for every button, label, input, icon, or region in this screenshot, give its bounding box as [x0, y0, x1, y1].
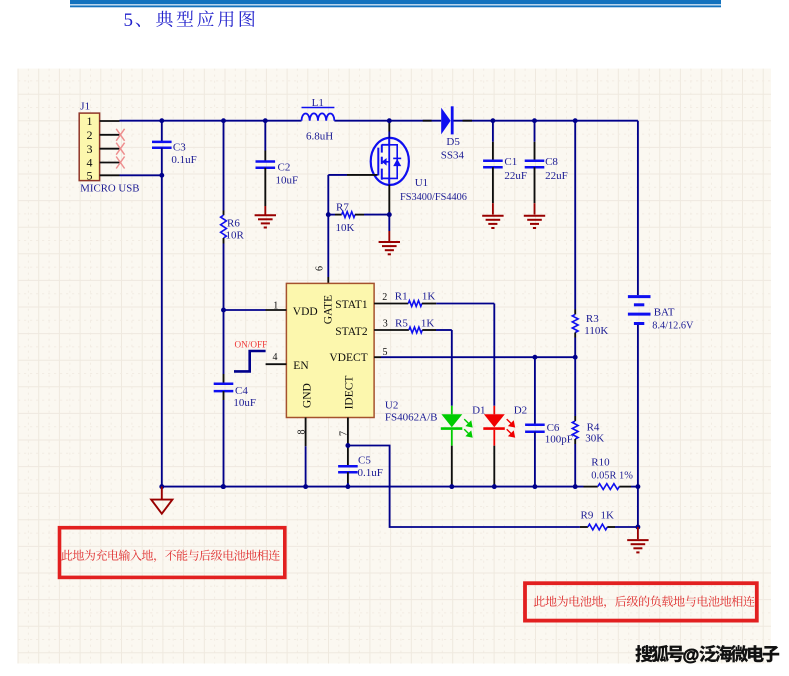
junction dot bottom rail x223.1	[221, 484, 226, 489]
junction dot gate R7	[326, 212, 331, 217]
svg-text:FS4062A/B: FS4062A/B	[385, 412, 438, 424]
wire C1 ground stub red	[492, 203, 494, 214]
LED D2 arrows	[507, 419, 515, 437]
capacitor C3	[152, 141, 172, 144]
transistor U1 body link	[382, 161, 389, 163]
transistor U1 source link	[382, 178, 389, 183]
junction dot C3 top	[159, 118, 164, 123]
transistor U1 source pin	[388, 185, 390, 215]
pin GND stub	[305, 418, 307, 447]
transistor U1 drain link	[382, 139, 389, 145]
wire battery ground stub	[637, 527, 639, 539]
ground under C2	[255, 214, 276, 216]
resistor R7	[342, 212, 355, 218]
header bar thin	[70, 5, 721, 7]
junction dot U1 drain	[387, 118, 392, 123]
svg-text:FS3400/FS4406: FS3400/FS4406	[400, 192, 467, 203]
pin C8 top stub	[534, 142, 536, 161]
junction dot source R7	[387, 212, 392, 217]
resistor R9	[588, 524, 607, 530]
ON/OFF step waveform	[234, 351, 266, 371]
svg-text:1K: 1K	[422, 291, 436, 303]
svg-text:10R: 10R	[226, 229, 245, 241]
wire IDECT sense	[348, 446, 580, 528]
LED D2 lead bottom	[493, 430, 495, 446]
capacitor C5	[338, 465, 358, 468]
svg-text:SS34: SS34	[441, 149, 465, 161]
transistor U1 gate bar	[377, 148, 379, 176]
wire top rail J1 to L1	[120, 120, 302, 122]
pin C1 top stub	[492, 142, 494, 161]
wire black seg before D5	[423, 120, 432, 122]
junction dot R4 bottom	[573, 484, 578, 489]
wire C4 to bottom rail	[223, 400, 225, 487]
wire VDD	[224, 309, 266, 311]
transistor U1 substrate arrow	[382, 158, 387, 166]
junction dot C1 top	[490, 118, 495, 123]
junction dot bottom rail x347.9	[345, 484, 350, 489]
pin 6 stub	[327, 277, 329, 283]
capacitor C1	[483, 160, 503, 163]
capacitor C2	[256, 160, 276, 163]
junction dot power ground	[159, 484, 164, 489]
wire C6 bottom	[534, 432, 536, 487]
svg-text:R1: R1	[395, 291, 408, 303]
svg-text:U2: U2	[385, 400, 398, 412]
no-connect X pin 2	[116, 129, 124, 141]
transistor U1 drain pin blue	[388, 132, 390, 139]
pin 5 stub	[100, 174, 120, 176]
junction dot C8 top	[532, 118, 537, 123]
svg-text:5: 5	[87, 169, 93, 183]
svg-text:D2: D2	[514, 405, 527, 417]
wire R9 to BAT column	[615, 526, 638, 528]
pin 1 stub	[100, 120, 120, 122]
connector J1 box	[79, 113, 99, 181]
red note box right	[525, 583, 757, 620]
svg-text:2: 2	[87, 128, 93, 142]
inductor L1	[302, 113, 335, 120]
svg-text:C6: C6	[547, 422, 560, 434]
ground battery	[627, 539, 648, 541]
pin R7 right stub	[355, 214, 364, 216]
watermark text	[635, 645, 683, 662]
pin C4 top stub	[223, 374, 225, 384]
LED D1 lead top	[451, 406, 453, 415]
wire bottom rail right	[631, 486, 638, 488]
wire VDECT	[381, 356, 575, 358]
wire C2 column top	[264, 121, 266, 151]
junction dot IDECT branch	[345, 443, 350, 448]
no-connect X pin 3	[116, 143, 124, 155]
junction dot pin5	[159, 173, 164, 178]
svg-text:R10: R10	[591, 457, 610, 469]
junction dot C2 top	[263, 118, 268, 123]
svg-text:1: 1	[87, 114, 93, 128]
LED D1 lead bottom	[451, 430, 453, 446]
no-connect X pin 4	[116, 157, 124, 169]
capacitor C6	[525, 424, 545, 427]
power ground triangle	[151, 500, 172, 514]
wire BAT bottom	[637, 325, 639, 527]
wire left rail lower	[161, 148, 163, 487]
junction dot C4 bottom	[221, 484, 226, 489]
wire black seg after D5	[463, 120, 473, 122]
capacitor C8	[525, 160, 545, 163]
svg-text:5: 5	[124, 10, 134, 31]
pin C4 bottom stub	[223, 391, 225, 400]
pin STAT2 stub	[374, 329, 409, 331]
svg-text:GND: GND	[302, 383, 314, 408]
svg-text:IDECT: IDECT	[344, 376, 356, 410]
pin R3 top stub	[574, 310, 576, 315]
svg-text:10uF: 10uF	[276, 175, 299, 187]
svg-text:J1: J1	[80, 100, 90, 112]
LED D2 lead top	[493, 406, 495, 415]
wire pin5 to left rail	[120, 174, 162, 176]
svg-text:BAT: BAT	[654, 307, 675, 319]
wire power ground stub	[161, 487, 163, 500]
pin 3 stub	[100, 148, 120, 150]
svg-text:C4: C4	[235, 385, 248, 397]
svg-text:L1: L1	[312, 97, 324, 109]
svg-text:C8: C8	[545, 156, 558, 168]
wire C2 to ground	[264, 168, 266, 206]
svg-text:EN: EN	[293, 360, 309, 372]
junction dot VDD node	[221, 308, 226, 313]
svg-text:R3: R3	[586, 313, 599, 325]
svg-text:VDD: VDD	[293, 306, 318, 318]
svg-text:R6: R6	[227, 218, 240, 230]
wire left rail upper	[161, 121, 163, 142]
wire R6 column top	[223, 121, 225, 211]
svg-text:C3: C3	[173, 142, 186, 154]
svg-text:D5: D5	[446, 136, 460, 148]
svg-text:6: 6	[315, 266, 326, 271]
LED D2 lower pin	[493, 446, 495, 487]
resistor R1	[408, 301, 422, 307]
LED D1 cathode bar	[441, 427, 463, 430]
pin VDECT stub	[374, 356, 381, 358]
svg-text:0.1uF: 0.1uF	[358, 467, 383, 479]
LED D2 cathode bar	[483, 427, 505, 430]
junction dot bottom rail x305.6	[303, 484, 308, 489]
LED D1 triangle	[441, 414, 462, 427]
wire GND column	[305, 446, 307, 486]
wire BAT top	[637, 121, 639, 296]
wire R7 right	[364, 214, 389, 216]
svg-text:1K: 1K	[601, 510, 615, 522]
svg-text:8.4/12.6V: 8.4/12.6V	[652, 321, 694, 332]
pin 4 stub	[100, 162, 120, 164]
svg-text:GATE: GATE	[323, 295, 335, 324]
wire D2 column	[493, 304, 495, 406]
svg-text:22uF: 22uF	[504, 170, 527, 182]
header bar thick	[70, 0, 721, 4]
LED D1 arrows	[464, 419, 472, 437]
resistor R10	[598, 484, 620, 490]
ground under U1 source	[379, 241, 400, 243]
ground under C8	[524, 215, 545, 217]
svg-text:STAT1: STAT1	[335, 299, 368, 311]
svg-text:0.05R 1%: 0.05R 1%	[591, 470, 633, 481]
transistor U1 body diode branch	[389, 145, 397, 179]
LED D2 triangle	[484, 414, 505, 427]
pin R3 bottom stub	[574, 333, 576, 338]
pin C1 bottom stub	[492, 167, 494, 203]
svg-text:R7: R7	[336, 202, 349, 214]
wire gate vertical	[327, 175, 329, 277]
resistor R5	[409, 327, 422, 333]
battery BAT	[628, 295, 651, 298]
pin C2 top stub	[264, 151, 266, 162]
svg-text:VDECT: VDECT	[329, 352, 367, 364]
wire top rail L1 to D5	[334, 120, 441, 122]
wire C2 ground stub red	[264, 206, 266, 215]
wire gate horizontal	[328, 174, 347, 176]
pin C8 bottom stub	[534, 167, 536, 203]
junction dot VDECT C6	[532, 355, 537, 360]
pin 2 stub	[100, 134, 120, 136]
junction dot D2 bottom	[492, 484, 497, 489]
wire R6 to VDD junction	[223, 244, 225, 375]
svg-text:10K: 10K	[336, 222, 355, 234]
junction dot R3 col top	[573, 118, 578, 123]
wire C5 bottom	[347, 472, 349, 484]
svg-text:STAT2: STAT2	[335, 326, 368, 338]
transistor U1 center axis	[388, 139, 390, 185]
svg-text:1K: 1K	[421, 318, 435, 330]
svg-text:ON/OFF: ON/OFF	[235, 339, 268, 349]
wire R7 left	[328, 214, 335, 216]
wire IDECT column	[347, 444, 349, 446]
transistor U1 drain pin	[388, 121, 390, 132]
svg-text:0.1uF: 0.1uF	[171, 154, 196, 166]
pin R5 right stub	[422, 329, 436, 331]
pin R4 bottom stub	[574, 439, 576, 444]
svg-text:22uF: 22uF	[545, 170, 568, 182]
svg-text:6.8uH: 6.8uH	[306, 131, 333, 143]
svg-text:R9: R9	[581, 510, 594, 522]
svg-text:100pF: 100pF	[545, 433, 573, 445]
wire R5 to D1 column	[436, 329, 452, 331]
pin gate stub black	[347, 174, 378, 176]
svg-text:C1: C1	[504, 156, 517, 168]
resistor R6	[221, 215, 227, 238]
svg-text:3: 3	[87, 142, 93, 156]
svg-text:@: @	[683, 645, 700, 664]
wire D1 column	[451, 330, 453, 406]
svg-text:3: 3	[383, 319, 388, 330]
svg-text:10uF: 10uF	[233, 397, 256, 409]
svg-text:2: 2	[382, 292, 387, 303]
pin R10 right stub	[619, 486, 631, 488]
resistor R4	[572, 421, 578, 439]
junction dot R6 top	[221, 118, 226, 123]
ground under C1	[482, 215, 503, 217]
wire C5 bottom2	[347, 483, 349, 487]
wire top rail D5 to corner	[454, 120, 638, 122]
wire C1 top blue	[492, 121, 494, 142]
junction dot C6 bottom	[532, 484, 537, 489]
pin STAT1 stub	[374, 303, 408, 305]
svg-text:C2: C2	[278, 162, 291, 174]
junction dot BAT rail	[635, 484, 640, 489]
svg-text:U1: U1	[415, 177, 428, 189]
transistor U1 ellipse	[371, 138, 409, 185]
transistor U1 channel segments	[381, 144, 383, 152]
junction dot R9 BAT	[635, 525, 640, 530]
wire IDECT to C5	[347, 448, 349, 467]
wire source to ground	[388, 215, 390, 231]
pin R9 left stub	[580, 526, 588, 528]
wire R1 to D2 column	[436, 303, 494, 305]
junction dot VDECT R3R4	[573, 355, 578, 360]
pin R1 right stub	[422, 303, 436, 305]
svg-text:4: 4	[273, 352, 278, 363]
wire C6 top	[534, 357, 536, 425]
svg-text:R5: R5	[395, 318, 408, 330]
pin R6 top stub	[223, 211, 225, 216]
pin IDECT stub	[347, 418, 349, 444]
svg-text:D1: D1	[472, 405, 485, 417]
red note right text	[534, 596, 755, 609]
pin R4 top stub	[574, 416, 576, 421]
pin R6 bottom stub	[223, 238, 225, 244]
wire R3 top	[574, 121, 576, 310]
svg-text:30K: 30K	[585, 432, 604, 444]
diode D5	[441, 108, 450, 135]
red note box left	[60, 528, 285, 578]
svg-text:C5: C5	[358, 455, 371, 467]
wire C8 top blue	[534, 121, 536, 142]
wire C8 ground stub red	[534, 203, 536, 214]
pin VDD stub	[266, 309, 287, 311]
svg-text:MICRO USB: MICRO USB	[80, 183, 139, 195]
junction dot D1 bottom	[449, 484, 454, 489]
wire R3 bottom	[574, 338, 576, 417]
op-amp U2 box	[286, 283, 374, 417]
capacitor C4	[214, 382, 234, 385]
resistor R3	[572, 314, 578, 332]
red note left text	[61, 550, 280, 563]
LED D1 lower pin	[451, 446, 453, 487]
svg-text:110K: 110K	[584, 325, 608, 337]
wire source ground stub red	[388, 231, 390, 241]
pin EN stub	[266, 363, 287, 365]
wire bottom rail left	[162, 486, 584, 488]
pin R7 left stub	[335, 214, 342, 216]
pin R10 left stub	[584, 486, 598, 488]
pin R9 right stub	[607, 526, 615, 528]
wire R4 bottom	[574, 444, 576, 487]
